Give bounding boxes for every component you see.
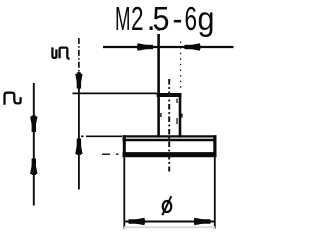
dimension line length 5 [78, 72, 80, 190]
dimension line thread width [103, 46, 234, 48]
dimension line thickness 2 [33, 83, 35, 206]
svg-text:-: - [173, 0, 183, 37]
disc corner left [123, 135, 126, 141]
extension line diameter right [214, 157, 216, 229]
stud right edge [179, 95, 182, 138]
svg-text:M: M [115, 0, 131, 37]
arrow thread right [180, 43, 200, 50]
label M2.5-6g thread designation [115, 0, 215, 37]
disc bottom face [123, 152, 217, 157]
faint scan line bottom [124, 226, 215, 228]
disc left edge [123, 135, 126, 157]
arrow length bottom [75, 135, 82, 155]
centerline vertical axis [168, 79, 170, 172]
extension line stud top [73, 92, 159, 94]
extension line thread right (dotted) [180, 42, 182, 93]
diameter symbol [162, 196, 171, 215]
label 5 length [52, 47, 69, 58]
thread crest nubs [161, 113, 182, 118]
arrow thickness top [30, 117, 37, 137]
stud top edge [157, 93, 182, 97]
svg-text:6: 6 [185, 0, 198, 37]
disc top thin edge [123, 135, 217, 137]
svg-text:g: g [198, 0, 215, 37]
label 2 thickness [5, 93, 21, 105]
dimension line length 5 upper dash-dot [78, 38, 80, 72]
dimension line diameter [124, 221, 215, 223]
arrow diameter left [124, 218, 144, 225]
extension line disc top (dash-dot from 5 dimension) [81, 135, 122, 137]
svg-text:5: 5 [153, 0, 170, 37]
arrow diameter right [194, 218, 215, 225]
disc right edge [213, 135, 216, 157]
disc bottom dash-dot remnant [102, 153, 119, 155]
arrow thread left [138, 43, 158, 50]
arrow length top [75, 74, 82, 93]
extension line diameter left [123, 157, 125, 229]
stud left edge [157, 95, 160, 138]
arrow thickness bottom [30, 154, 37, 174]
thread root line [176, 99, 178, 125]
disc top thick edge [124, 139, 216, 142]
svg-text:2: 2 [131, 0, 144, 37]
disc corner right [213, 135, 216, 141]
extension line thread left (dot then solid) [157, 28, 159, 31]
